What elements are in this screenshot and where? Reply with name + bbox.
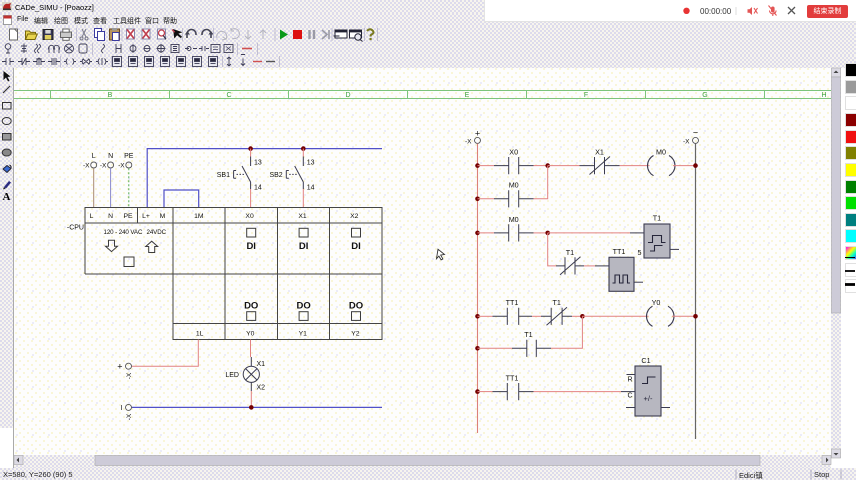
wire M0 to branch bbox=[534, 166, 548, 199]
wire T1 to node r4 bbox=[572, 315, 582, 317]
recording overlay icons bbox=[683, 6, 795, 17]
node branch r1 bbox=[545, 163, 550, 168]
menu doc icon bbox=[4, 16, 12, 25]
color palette swatches bbox=[845, 63, 856, 77]
svg-text:TT1: TT1 bbox=[506, 374, 519, 383]
timer TT1 block bbox=[595, 257, 643, 291]
wire SB1 to X0 bbox=[250, 189, 252, 207]
svg-text:I: I bbox=[121, 405, 123, 412]
svg-text:Y0: Y0 bbox=[246, 331, 255, 338]
svg-text:M0: M0 bbox=[509, 215, 519, 224]
print bbox=[61, 29, 72, 40]
left rail terminal -X + bbox=[475, 137, 481, 143]
svg-text:13: 13 bbox=[307, 160, 315, 167]
left rail bbox=[477, 144, 479, 433]
wire branch r3 down bbox=[548, 233, 556, 266]
terminal -X L bbox=[91, 162, 97, 168]
wire rail to M0 contact bbox=[478, 232, 495, 234]
svg-text:D: D bbox=[345, 92, 350, 99]
svg-text:LED: LED bbox=[225, 372, 239, 379]
wire N neutral bbox=[110, 168, 112, 207]
contact T1 NC r4 bbox=[541, 307, 572, 325]
svg-text:L: L bbox=[92, 153, 96, 160]
wire SB2 to X1 bbox=[302, 189, 304, 207]
grayed 1-4 bbox=[217, 31, 227, 40]
svg-text:L: L bbox=[90, 213, 94, 220]
svg-text:13: 13 bbox=[254, 160, 262, 167]
paste bbox=[110, 28, 120, 41]
terminal -X plus bbox=[126, 363, 132, 369]
svg-text:M: M bbox=[160, 213, 166, 220]
timer T1 block bbox=[630, 224, 679, 258]
contact M0 NO bbox=[494, 190, 534, 207]
status square bbox=[124, 257, 134, 267]
svg-text:X1: X1 bbox=[595, 148, 604, 157]
svg-text:A: A bbox=[3, 191, 11, 203]
wire rail to TT1 contact bbox=[478, 315, 493, 317]
svg-text:G: G bbox=[702, 92, 707, 99]
undo bbox=[185, 30, 196, 38]
coil M0 bbox=[647, 156, 675, 176]
svg-text:L+: L+ bbox=[142, 213, 150, 220]
svg-text:1M: 1M bbox=[194, 213, 204, 220]
svg-text:E: E bbox=[465, 92, 470, 99]
menu items bbox=[0, 13, 484, 26]
hscroll right arrow bbox=[822, 456, 831, 465]
svg-text:M0: M0 bbox=[656, 148, 666, 157]
node rail r5 bbox=[475, 346, 480, 351]
node rail r6 bbox=[475, 389, 480, 394]
right rail bbox=[695, 144, 697, 439]
PLC terminal labels bbox=[90, 213, 359, 220]
svg-text:-X: -X bbox=[126, 413, 133, 420]
window chrome backgrounds bbox=[0, 0, 856, 13]
wire L phase bbox=[93, 168, 95, 207]
title text bbox=[15, 3, 94, 12]
svg-text:14: 14 bbox=[307, 185, 315, 192]
recording overlay bbox=[484, 0, 856, 22]
svg-text:PE: PE bbox=[124, 153, 134, 160]
svg-text:H: H bbox=[821, 92, 826, 99]
stamp2 bbox=[142, 29, 150, 39]
svg-text:120 - 240 VAC: 120 - 240 VAC bbox=[104, 229, 143, 236]
svg-text:+: + bbox=[117, 362, 122, 372]
node rail r2 bbox=[475, 197, 480, 202]
svg-text:-X: -X bbox=[126, 372, 133, 379]
wire TT1 to T1 NC bbox=[532, 315, 541, 317]
contact T1 NC bbox=[556, 257, 584, 275]
copy bbox=[95, 29, 105, 41]
svg-text:C: C bbox=[226, 92, 231, 99]
wire T1 to branch r4 bbox=[551, 316, 582, 348]
node rail r4 bbox=[475, 314, 480, 319]
wire PE ground bbox=[128, 168, 130, 207]
svg-text:Y1: Y1 bbox=[299, 331, 308, 338]
pushbutton SB2 bbox=[286, 157, 303, 190]
svg-text:-X: -X bbox=[100, 163, 107, 170]
new bbox=[10, 29, 18, 40]
wire X0 to node bbox=[534, 165, 548, 167]
svg-text:N: N bbox=[108, 153, 113, 160]
wire Y0 to rail bbox=[672, 315, 696, 317]
node junction SB1 top bbox=[248, 146, 253, 151]
wire N return blue bbox=[132, 406, 382, 408]
svg-text:-X: -X bbox=[465, 139, 472, 146]
svg-text:B: B bbox=[108, 92, 113, 99]
wire X1 to coil M0 bbox=[620, 165, 650, 167]
svg-text:T1: T1 bbox=[524, 330, 532, 339]
svg-text:14: 14 bbox=[254, 185, 262, 192]
wire rail to TT1 contact bbox=[478, 391, 493, 393]
svg-text:+/-: +/- bbox=[644, 394, 653, 403]
svg-text:5: 5 bbox=[638, 248, 642, 257]
svg-text:X2: X2 bbox=[350, 213, 359, 220]
svg-text:+: + bbox=[475, 129, 480, 139]
contact TT1 NO r6 bbox=[493, 383, 534, 400]
vscroll down arrow bbox=[832, 449, 841, 458]
PLC supply ratings text bbox=[104, 229, 167, 236]
svg-text:Y2: Y2 bbox=[351, 331, 360, 338]
wire rail to M0 contact bbox=[478, 198, 495, 200]
svg-text:DI: DI bbox=[351, 241, 361, 252]
svg-text:DI: DI bbox=[299, 241, 309, 252]
arrow up VDC bbox=[146, 241, 158, 252]
line width swatches in palette bbox=[845, 257, 855, 259]
svg-text:T1: T1 bbox=[553, 298, 561, 307]
svg-text:DO: DO bbox=[349, 301, 363, 312]
DO squares and labels bbox=[244, 301, 363, 312]
right rail terminal -X minus bbox=[693, 137, 699, 143]
svg-text:X1: X1 bbox=[257, 361, 266, 368]
svg-text:X1: X1 bbox=[298, 213, 307, 220]
wire T1 NC to TT1 bbox=[584, 265, 595, 267]
play bbox=[280, 30, 288, 40]
svg-text:Y0: Y0 bbox=[652, 298, 661, 307]
svg-text:-CPU: -CPU bbox=[67, 225, 84, 232]
vscroll up arrow bbox=[832, 68, 841, 77]
PLC module U1 outline bbox=[85, 208, 382, 340]
cut bbox=[80, 29, 88, 40]
node rail right r1 bbox=[693, 163, 698, 168]
svg-text:SB1: SB1 bbox=[217, 172, 230, 179]
wire node to coil Y0 bbox=[582, 315, 648, 317]
svg-text:F: F bbox=[584, 92, 588, 99]
pushbutton SB1 bbox=[234, 157, 251, 190]
svg-text:DO: DO bbox=[296, 301, 310, 312]
wire M0 to rail bbox=[673, 165, 696, 167]
svg-text:DO: DO bbox=[244, 301, 258, 312]
toolbar separators row1 bbox=[77, 28, 378, 41]
svg-text:1L: 1L bbox=[196, 331, 204, 338]
terminal -X PE bbox=[126, 162, 132, 168]
wire drop to SB1 bbox=[250, 149, 252, 157]
wire 1L to +24 terminal bbox=[132, 340, 198, 367]
node branch r4 bbox=[580, 314, 585, 319]
black arrow bbox=[172, 29, 183, 39]
svg-text:DI: DI bbox=[246, 241, 256, 252]
svg-text:X0: X0 bbox=[509, 148, 518, 157]
svg-text:-X: -X bbox=[83, 163, 90, 170]
speaker muted bbox=[748, 7, 758, 15]
mouse cursor bbox=[437, 249, 445, 260]
terminal labels L N PE bbox=[92, 153, 134, 160]
DI squares and labels bbox=[247, 228, 361, 237]
svg-text:TT1: TT1 bbox=[613, 247, 626, 256]
wire Y0 down bbox=[250, 340, 252, 358]
svg-text:X2: X2 bbox=[257, 385, 266, 392]
node rail r3 bbox=[475, 231, 480, 236]
window2 bbox=[350, 30, 363, 42]
mic muted bbox=[769, 6, 777, 17]
node branch r3 bbox=[545, 231, 550, 236]
wire drop to SB2 bbox=[302, 149, 304, 157]
wire to branch node r3 bbox=[534, 232, 548, 234]
save bbox=[43, 30, 53, 40]
stamp3 bbox=[158, 29, 167, 39]
svg-text:C1: C1 bbox=[641, 356, 650, 365]
hscroll thumb bbox=[95, 456, 760, 466]
wire M to 1M jumper bbox=[164, 190, 199, 207]
wire 24V L+ blue feed bbox=[147, 149, 382, 207]
terminal -X N bbox=[108, 162, 114, 168]
contact TT1 NO bbox=[493, 308, 533, 325]
lamp LED bbox=[243, 357, 259, 391]
vscroll thumb bbox=[832, 77, 841, 313]
stamp1 bbox=[127, 29, 135, 39]
arrow down VAC bbox=[106, 240, 118, 251]
open bbox=[26, 31, 38, 40]
status bar panel separators bbox=[736, 470, 841, 480]
svg-text:TT1: TT1 bbox=[506, 298, 519, 307]
status bar text bbox=[3, 470, 73, 479]
node rail right r4 bbox=[693, 314, 698, 319]
node junction LED bottom bbox=[249, 405, 254, 410]
help bbox=[367, 29, 374, 40]
svg-text:M0: M0 bbox=[509, 181, 519, 190]
svg-text:-X: -X bbox=[683, 139, 690, 146]
contact X1 NC bbox=[580, 157, 620, 175]
hscroll left arrow bbox=[14, 456, 23, 465]
contact T1 NO bbox=[512, 340, 551, 357]
redo bbox=[202, 30, 214, 38]
svg-text:-X: -X bbox=[118, 163, 125, 170]
svg-text:24VDC: 24VDC bbox=[147, 229, 167, 236]
svg-text:R: R bbox=[627, 377, 632, 384]
svg-text:T1: T1 bbox=[653, 214, 661, 223]
svg-text:PE: PE bbox=[123, 213, 133, 220]
wire TT1 to counter C1 bbox=[534, 391, 622, 393]
wire rail to T1 contact bbox=[478, 347, 513, 349]
-X designators bbox=[83, 163, 125, 170]
terminal -X minus bbox=[126, 404, 132, 410]
svg-text:X0: X0 bbox=[245, 213, 254, 220]
svg-text:T1: T1 bbox=[566, 248, 574, 257]
svg-text:C: C bbox=[627, 393, 632, 400]
pause bbox=[310, 30, 315, 39]
svg-text:SB2: SB2 bbox=[269, 172, 282, 179]
wire node to X1 bbox=[548, 165, 580, 167]
drawing frame top band bbox=[14, 91, 831, 99]
contact X0 NO bbox=[494, 157, 534, 174]
step bbox=[322, 30, 329, 39]
svg-text:N: N bbox=[108, 213, 113, 220]
node junction SB2 top bbox=[301, 146, 306, 151]
coil Y0 bbox=[646, 306, 674, 326]
wire node to timer T1 bbox=[548, 232, 630, 234]
counter C1 block bbox=[621, 366, 670, 416]
PLC bottom terminal labels bbox=[196, 331, 360, 338]
node rail r1 bbox=[475, 163, 480, 168]
svg-text:−: − bbox=[693, 128, 698, 138]
wire LED to N line bbox=[250, 391, 252, 407]
stop bbox=[293, 30, 302, 39]
window1 bbox=[334, 30, 348, 38]
close X bbox=[788, 7, 795, 14]
contact M0 NO r3 bbox=[494, 224, 534, 241]
wire rail to X0 bbox=[478, 165, 495, 167]
